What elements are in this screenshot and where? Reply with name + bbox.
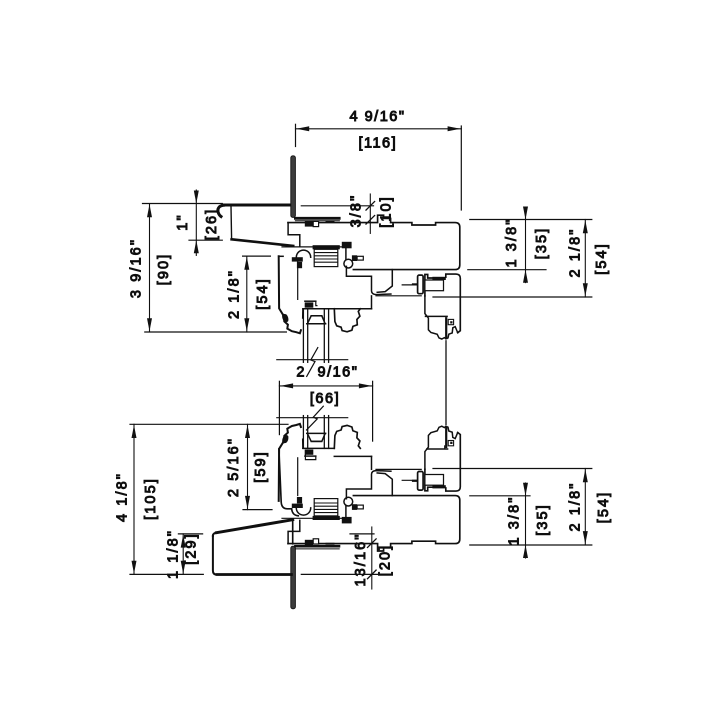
svg-text:2 1/8": 2 1/8" bbox=[227, 269, 243, 319]
svg-text:1 3/8": 1 3/8" bbox=[504, 218, 520, 268]
svg-text:1 1/8": 1 1/8" bbox=[166, 529, 182, 579]
svg-text:4 9/16": 4 9/16" bbox=[350, 109, 406, 125]
svg-text:[66]: [66] bbox=[310, 391, 340, 407]
svg-text:[10]: [10] bbox=[379, 195, 395, 228]
svg-text:2 1/8": 2 1/8" bbox=[568, 228, 584, 278]
svg-text:[35]: [35] bbox=[535, 503, 551, 536]
svg-text:[54]: [54] bbox=[596, 491, 612, 524]
svg-text:[90]: [90] bbox=[156, 253, 172, 286]
svg-text:[116]: [116] bbox=[358, 136, 397, 152]
svg-text:2 5/16": 2 5/16" bbox=[226, 437, 242, 497]
svg-text:4 1/8": 4 1/8" bbox=[115, 472, 131, 522]
svg-text:[26]: [26] bbox=[204, 208, 220, 241]
svg-text:2 1/8": 2 1/8" bbox=[568, 482, 584, 532]
svg-text:2: 2 bbox=[296, 365, 306, 381]
svg-text:[54]: [54] bbox=[594, 242, 610, 275]
svg-text:3/8": 3/8" bbox=[349, 194, 365, 228]
svg-text:[59]: [59] bbox=[253, 450, 269, 483]
svg-text:[20]: [20] bbox=[378, 544, 394, 577]
svg-text:13/16": 13/16" bbox=[353, 532, 369, 586]
svg-text:[29]: [29] bbox=[184, 532, 200, 565]
svg-text:[54]: [54] bbox=[255, 277, 271, 310]
svg-text:3 9/16": 3 9/16" bbox=[129, 238, 145, 298]
svg-text:9/16": 9/16" bbox=[318, 365, 359, 381]
svg-text:[105]: [105] bbox=[143, 477, 159, 520]
svg-text:1 3/8": 1 3/8" bbox=[507, 496, 523, 546]
svg-text:1": 1" bbox=[175, 213, 191, 230]
svg-text:[35]: [35] bbox=[534, 227, 550, 260]
